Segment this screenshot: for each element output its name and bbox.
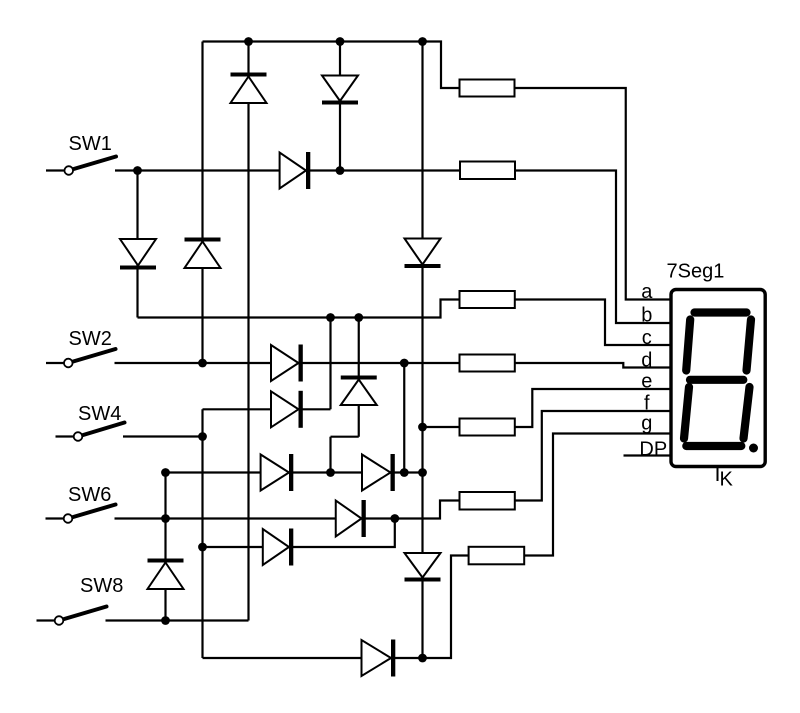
svg-text:7Seg1: 7Seg1	[667, 261, 725, 283]
svg-text:DP: DP	[639, 438, 667, 460]
svg-text:f: f	[644, 393, 650, 415]
svg-text:c: c	[642, 327, 652, 349]
svg-text:d: d	[641, 349, 652, 371]
svg-text:K: K	[720, 469, 734, 491]
svg-text:SW8: SW8	[80, 575, 123, 597]
svg-text:e: e	[641, 370, 652, 392]
svg-text:SW6: SW6	[68, 484, 111, 506]
svg-text:b: b	[641, 305, 652, 327]
svg-text:SW2: SW2	[69, 328, 112, 350]
svg-text:g: g	[641, 413, 652, 435]
svg-text:a: a	[641, 281, 653, 303]
svg-text:SW4: SW4	[78, 403, 121, 425]
svg-text:SW1: SW1	[69, 133, 112, 155]
